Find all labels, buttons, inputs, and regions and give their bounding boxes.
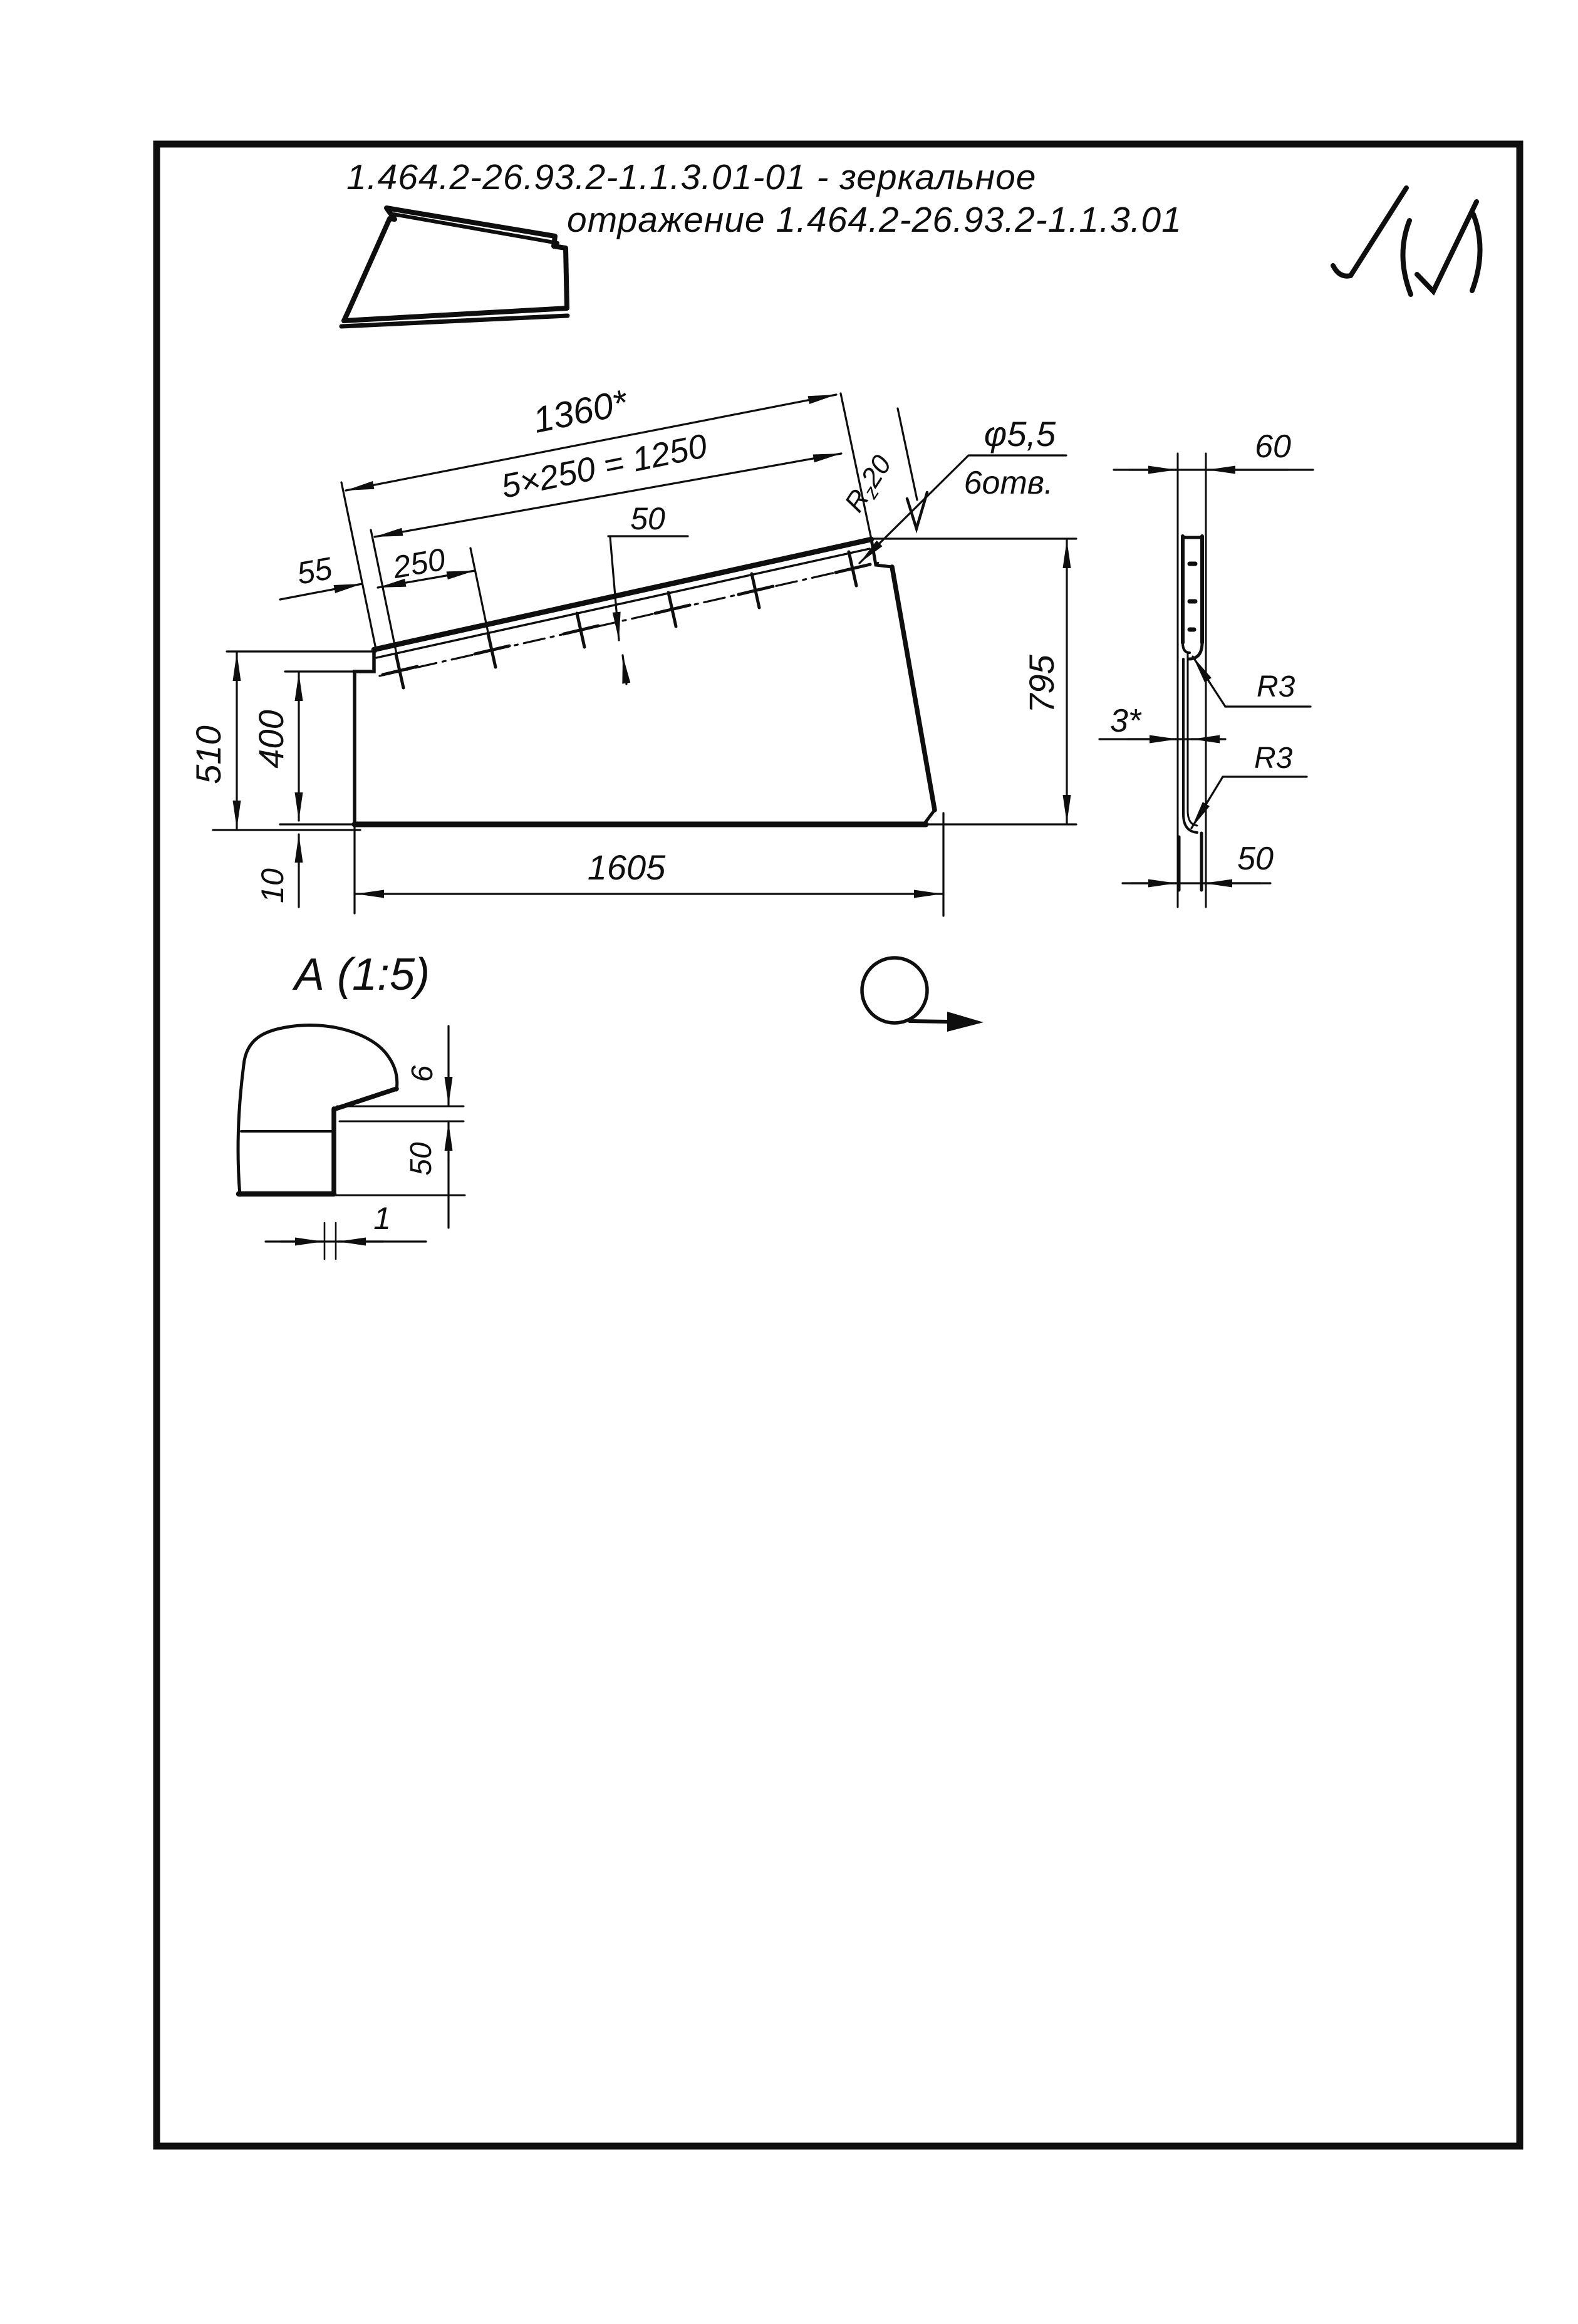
upper view: sloped flange top edge (double line) xyxy=(374,539,871,658)
dimension 400 upper xyxy=(285,672,357,821)
approval checkmark 1 xyxy=(1333,188,1406,276)
svg-text:60: 60 xyxy=(1255,428,1291,465)
header designation text line 2 xyxy=(567,200,1182,240)
freehand thumbnail sketch of mirrored part xyxy=(341,208,568,326)
svg-text:10: 10 xyxy=(255,868,290,903)
svg-text:R3: R3 xyxy=(1257,670,1295,703)
section view: top flange profile xyxy=(1183,536,1202,643)
section view: web (3mm sheet) xyxy=(1183,654,1188,814)
upper view: top right notch and right edge xyxy=(871,539,935,822)
dimension 795 xyxy=(874,539,1076,824)
upper view: part outline bottom edge xyxy=(280,822,926,827)
dimension 5x250=1250 (slanted) xyxy=(375,454,841,537)
header designation text line 1 xyxy=(346,157,1037,197)
section view: upper bend R3 hook xyxy=(1183,643,1202,659)
section view: R3 callout lower xyxy=(1191,777,1307,828)
hole callout φ5.5 6 holes xyxy=(859,455,1066,563)
dimension 10 upper xyxy=(298,834,299,907)
upper view: hole mark 1 xyxy=(383,654,417,688)
svg-text:1.464.2-26.93.2-1.1.3.01-01 -: 1.464.2-26.93.2-1.1.3.01-01 - зеркальное xyxy=(346,157,1037,197)
upper view: hole mark 4 xyxy=(655,593,690,626)
roughness mark Rz20 on leader xyxy=(898,408,927,529)
upper view: part left edge with step xyxy=(355,650,374,824)
frame border xyxy=(157,144,1520,2146)
detail A: dimension 1 xyxy=(266,1223,426,1259)
svg-text:50: 50 xyxy=(630,501,665,536)
upper view: hole centerline (dash-dot) xyxy=(380,563,880,676)
svg-text:50: 50 xyxy=(1237,841,1274,877)
section view: extension lines xyxy=(1178,454,1206,907)
svg-text:795: 795 xyxy=(1022,654,1061,713)
dimension 250 xyxy=(371,530,492,669)
dimension 1360* (slanted) xyxy=(341,393,871,649)
section view: dimension 3* thickness xyxy=(1099,738,1225,740)
section view: dimension 60 xyxy=(1114,469,1313,470)
svg-text:3*: 3* xyxy=(1110,703,1142,739)
upper view: hole mark 6 xyxy=(836,552,870,586)
svg-text:1: 1 xyxy=(373,1201,391,1236)
detail A: flange beak edge xyxy=(239,1089,397,1194)
section view: R3 callout upper xyxy=(1193,656,1311,707)
svg-text:отражение 1.464.2-26.93.2-1: отражение 1.464.2-26.93.2-1.1.3.01 xyxy=(567,200,1182,240)
svg-text:R3: R3 xyxy=(1254,742,1293,775)
dimension 55 leader xyxy=(280,584,362,599)
detail A: dimension 6 xyxy=(447,1026,449,1160)
detail A: thin reference lines xyxy=(336,1106,465,1195)
svg-text:6: 6 xyxy=(406,1065,439,1082)
upper view: hole mark 2 xyxy=(475,633,509,667)
svg-text:50: 50 xyxy=(405,1142,438,1176)
svg-text:φ5,5: φ5,5 xyxy=(984,414,1056,454)
svg-text:55: 55 xyxy=(294,551,335,591)
upper view: hole mark 5 xyxy=(739,574,773,608)
detail A: dimension 50 xyxy=(447,1160,449,1228)
section view: bottom flange profile xyxy=(1179,833,1202,890)
dimension 1605 upper xyxy=(355,813,943,916)
svg-text:А (1:5): А (1:5) xyxy=(292,950,430,1000)
approval checkmark 2 in parentheses xyxy=(1403,202,1480,294)
detail A: freehand blob outline xyxy=(238,1025,397,1195)
section view: dimension 50 bottom xyxy=(1123,882,1270,884)
detail label A (1:5) xyxy=(292,950,430,1000)
svg-text:400: 400 xyxy=(251,710,291,768)
view direction symbol (circle with arrow) xyxy=(862,958,984,1032)
svg-text:510: 510 xyxy=(189,725,228,784)
dimension 50 (flange to hole line) xyxy=(608,536,688,684)
dimension 510 xyxy=(213,651,376,830)
section view: lower bend R3 hook xyxy=(1183,811,1197,833)
svg-text:6отв.: 6отв. xyxy=(964,465,1054,501)
svg-text:1605: 1605 xyxy=(588,848,666,887)
upper view: hole mark 3 xyxy=(564,613,598,647)
